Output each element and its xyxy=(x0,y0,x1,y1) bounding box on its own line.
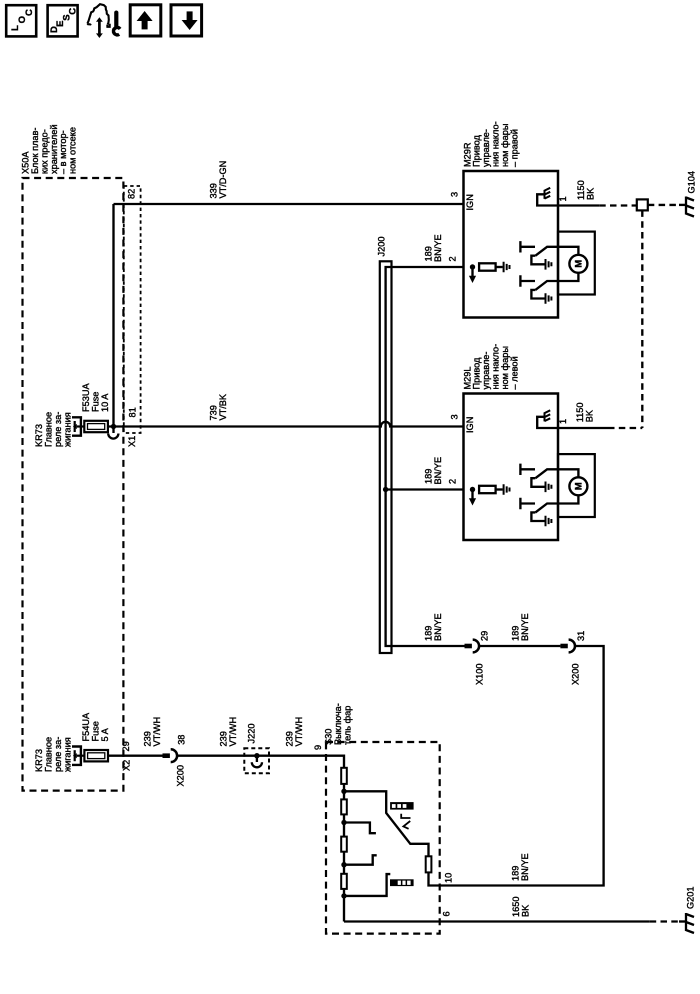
svg-text:M: M xyxy=(573,260,583,268)
pin 1 of M29L with internal chassis ground xyxy=(537,417,558,428)
svg-text:189: 189 xyxy=(424,626,434,641)
svg-text:M: M xyxy=(573,482,583,490)
pin 2 internals of M29R: junction, arrow, resistor, ground xyxy=(470,264,475,269)
changeover switch contact 1 inside M29R xyxy=(520,241,535,252)
headlamp leveling actuator M29R box xyxy=(464,171,559,318)
svg-text:жигания: жигания xyxy=(62,737,72,772)
toolbar button LOC xyxy=(6,5,36,36)
wire 339 VT/D-GN from X50A pin 82 to M29R pin 3 xyxy=(114,203,464,205)
resistor 2 in S30 chain xyxy=(341,799,347,814)
splice node to ground G104 (square) xyxy=(637,199,648,210)
connector X100 pin 29 xyxy=(465,644,472,649)
svg-text:VT/D-GN: VT/D-GN xyxy=(218,161,228,199)
toolbar button DESC xyxy=(48,5,78,36)
svg-text:3: 3 xyxy=(450,414,460,419)
motor wires of M29R xyxy=(558,247,578,255)
open contact from junction 3 xyxy=(344,855,377,864)
svg-text:BN/YE: BN/YE xyxy=(433,234,443,262)
svg-text:J200: J200 xyxy=(377,237,387,257)
resistor 4 in S30 chain xyxy=(341,874,347,889)
wire 189 BN/YE inner conductor of J200 xyxy=(386,267,465,646)
resistor 1 in S30 chain xyxy=(341,768,347,784)
wire 1650 BK from S30 pin 6 to ground G201 xyxy=(344,920,650,922)
svg-text:BN/YE: BN/YE xyxy=(520,853,530,881)
svg-text:VT/BK: VT/BK xyxy=(218,393,228,420)
toolbar icon double arrow xyxy=(98,21,101,35)
junction on J200 inner wire to M29L pin 2 xyxy=(383,487,388,492)
fuse holder socket below junction xyxy=(112,427,114,434)
ground G201 xyxy=(686,913,694,933)
wire 1150 BK from M29R pin 1 xyxy=(558,204,599,206)
toolbar icon wrench xyxy=(114,13,118,26)
svg-text:BK: BK xyxy=(585,187,595,200)
wire 239 VT/WH from X200-38 to splice J220 xyxy=(177,755,326,757)
svg-text:J220: J220 xyxy=(247,724,257,744)
svg-text:ном отсеке: ном отсеке xyxy=(68,127,78,174)
position indicator icon lower (wheel display) xyxy=(390,879,414,886)
svg-text:L: L xyxy=(10,25,21,31)
svg-text:– левой: – левой xyxy=(509,356,519,389)
output resistor in S30 xyxy=(426,856,432,872)
svg-text:IGN: IGN xyxy=(465,417,475,433)
wire from output resistor to pin 10 xyxy=(429,872,441,885)
fuse F54UA 5A xyxy=(84,750,108,761)
motor enclosure of M29L xyxy=(558,454,595,517)
changeover switch contact 2 inside M29R xyxy=(520,275,535,286)
wire 189 BN/YE from J200 to X100 pin 29 xyxy=(0,0,1,1)
svg-text:31: 31 xyxy=(576,631,586,641)
svg-text:жигания: жигания xyxy=(62,412,72,447)
svg-text:C: C xyxy=(68,8,79,15)
svg-text:G104: G104 xyxy=(687,171,697,193)
svg-text:BN/YE: BN/YE xyxy=(433,613,443,641)
svg-text:82: 82 xyxy=(127,189,137,199)
pin 1 of M29R with internal chassis ground xyxy=(537,194,558,205)
svg-text:2: 2 xyxy=(448,479,458,484)
svg-text:29: 29 xyxy=(480,631,490,641)
resistor chain of S30 xyxy=(326,756,344,922)
wire 1150 BK from M29L pin 1 xyxy=(558,427,608,429)
motor M of M29L xyxy=(569,477,587,495)
svg-text:5 A: 5 A xyxy=(100,727,110,741)
chain junction 1 xyxy=(341,789,346,794)
svg-text:BN/YE: BN/YE xyxy=(520,613,530,641)
svg-text:BN/YE: BN/YE xyxy=(433,457,443,485)
svg-text:10: 10 xyxy=(444,873,454,883)
changeover switch contact 2 inside M29L xyxy=(520,498,535,509)
svg-text:189: 189 xyxy=(511,626,521,641)
open contact from junction 2 xyxy=(344,823,376,834)
toolbar button up arrow xyxy=(130,5,161,36)
headlamp switch S30 (dashed box) xyxy=(326,742,440,934)
svg-text:X100: X100 xyxy=(475,664,485,685)
svg-text:– правой: – правой xyxy=(509,129,519,167)
wire 189 BN/YE from J200 to M29L pin 2 xyxy=(386,488,464,490)
junction at J220 xyxy=(254,753,259,758)
svg-text:1: 1 xyxy=(558,419,568,424)
toolbar button down arrow xyxy=(171,5,202,36)
changeover switch contact 1 inside M29L xyxy=(520,464,535,475)
svg-text:VT/WH: VT/WH xyxy=(294,717,304,747)
svg-text:38: 38 xyxy=(177,735,187,745)
pin 2 internals of M29L: junction, arrow, resistor, ground xyxy=(470,487,475,492)
wire 189 BN/YE from X100 to X200 pin 31 xyxy=(479,645,560,647)
ground G104 xyxy=(686,197,694,217)
wire 189 BN/YE from X200 down to S30 pin 10 xyxy=(440,646,604,886)
connector X200 pin 31 xyxy=(560,644,567,649)
motor M of M29R xyxy=(569,255,587,273)
motor enclosure of M29R xyxy=(558,232,595,295)
svg-text:10 A: 10 A xyxy=(100,393,110,412)
svg-text:G201: G201 xyxy=(686,887,696,909)
svg-text:BK: BK xyxy=(521,904,531,917)
svg-text:189: 189 xyxy=(424,246,434,261)
svg-text:O: O xyxy=(17,16,28,23)
svg-text:VT/WH: VT/WH xyxy=(228,717,238,747)
headlamp leveling actuator M29L box xyxy=(464,394,559,541)
svg-text:189: 189 xyxy=(424,469,434,484)
harness loop J200 (outer) xyxy=(380,261,392,653)
svg-text:X200: X200 xyxy=(571,664,581,685)
resistor 3 in S30 chain xyxy=(341,837,347,852)
contact from junction 4 to position indicator xyxy=(344,874,390,896)
dashed wire splice to ground G104 xyxy=(648,204,679,206)
fuse box X50A (dashed) xyxy=(23,178,124,791)
connector X1 (dashed box) xyxy=(124,186,141,433)
chain junction 3 xyxy=(341,862,346,867)
motor wires of M29L xyxy=(558,469,578,477)
position indicator icon upper (wheel display) xyxy=(390,802,414,810)
manual actuation arrow on wiper xyxy=(401,814,410,818)
svg-text:6: 6 xyxy=(442,911,452,916)
svg-text:81: 81 xyxy=(128,407,138,417)
wire 239 VT/WH from fuse F54UA through X50A pin 29 / X2 xyxy=(108,755,163,757)
svg-text:X200: X200 xyxy=(176,765,186,786)
svg-text:29: 29 xyxy=(121,741,131,751)
svg-text:тель фар: тель фар xyxy=(342,706,352,745)
dashed wire splice to M29L branch xyxy=(641,210,643,428)
splice J220 (dashed box) xyxy=(244,748,269,773)
svg-text:189: 189 xyxy=(511,866,521,881)
svg-text:BK: BK xyxy=(584,409,594,422)
svg-text:IGN: IGN xyxy=(465,194,475,210)
wire 739 VT/BK from X50A pin 81 to M29L pin 3 (hops over J200 inner wire) xyxy=(114,422,464,427)
chain junction 2 xyxy=(341,820,346,825)
wire from fuse F53UA to node, vertical riser to wire 339 xyxy=(108,204,114,427)
svg-text:1: 1 xyxy=(558,196,568,201)
relay KR73 contact (ignition main relay), feeds F53UA xyxy=(72,417,81,435)
svg-text:C: C xyxy=(24,9,35,16)
svg-text:X1: X1 xyxy=(127,436,137,447)
svg-text:3: 3 xyxy=(450,192,460,197)
fuse F53UA 10A xyxy=(84,421,108,432)
svg-text:9: 9 xyxy=(313,745,323,750)
svg-text:X2: X2 xyxy=(122,760,132,771)
wiper tap from junction 1 to output resistor xyxy=(344,791,429,856)
chain junction 4 xyxy=(341,893,346,898)
relay KR73 contact (ignition main relay), feeds F54UA xyxy=(72,747,81,765)
toolbar icon location map with arrow and wrench xyxy=(87,4,108,24)
svg-text:VT/WH: VT/WH xyxy=(152,717,162,747)
svg-text:1650: 1650 xyxy=(511,897,521,917)
junction at fuse F53UA output xyxy=(111,424,116,429)
svg-text:2: 2 xyxy=(448,256,458,261)
connector X200 pin 38 xyxy=(163,753,170,758)
